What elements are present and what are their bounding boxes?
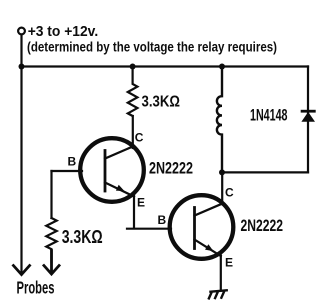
svg-text:2N2222: 2N2222 (241, 217, 284, 235)
wire: Q2 collector up to coil junction (221, 172, 223, 204)
probe arrow left (13, 265, 31, 275)
ground (208, 290, 228, 299)
wire: Q2 emitter down to ground (220, 256, 222, 291)
svg-text:+3 to +12v.: +3 to +12v. (28, 24, 99, 40)
probe arrow right (below R2) (43, 249, 60, 274)
svg-text:3.3KΩ: 3.3KΩ (142, 93, 181, 110)
wire: R1 bottom to Q1 collector (132, 116, 134, 148)
svg-text:B: B (158, 213, 167, 227)
svg-text:C: C (135, 130, 144, 144)
wire: Q1 base tee down to R2 (50, 171, 52, 218)
svg-text:C: C (225, 185, 234, 199)
terminal +V input (18, 28, 25, 35)
diode D1 1N4148 (301, 111, 316, 122)
svg-text:2N2222: 2N2222 (149, 160, 193, 178)
svg-text:E: E (225, 255, 233, 269)
wire: Q1 emitter down and right to Q2 base (127, 196, 171, 229)
junction node: coil bottom / Q2 collector (219, 169, 225, 175)
wire: coil bottom to diode branch (bottom horizontal) (222, 171, 308, 173)
svg-text:(determined by the voltage the: (determined by the voltage the relay req… (27, 39, 277, 54)
svg-text:B: B (68, 154, 77, 168)
svg-text:3.3KΩ: 3.3KΩ (62, 227, 103, 247)
transistor Q1 2N2222 (80, 138, 144, 202)
transistor Q2 2N2222 (170, 195, 234, 259)
relay coil L1 (217, 67, 222, 173)
wire: +V top rail horizontal (22, 65, 309, 67)
svg-text:E: E (137, 195, 145, 209)
wire: Q1 base horizontal (52, 170, 83, 172)
svg-text:Probes: Probes (17, 278, 55, 298)
junction node: left rail (19, 64, 25, 70)
wire: diode branch right vertical (307, 67, 309, 173)
resistor R1 3.3K (128, 67, 138, 117)
resistor R2 3.3K (46, 218, 56, 262)
svg-text:1N4148: 1N4148 (250, 107, 288, 125)
junction node: relay coil top (219, 64, 225, 70)
wire: terminal down to probe arrow (left vertical) (20, 35, 22, 273)
junction node: R1 top (130, 64, 136, 70)
